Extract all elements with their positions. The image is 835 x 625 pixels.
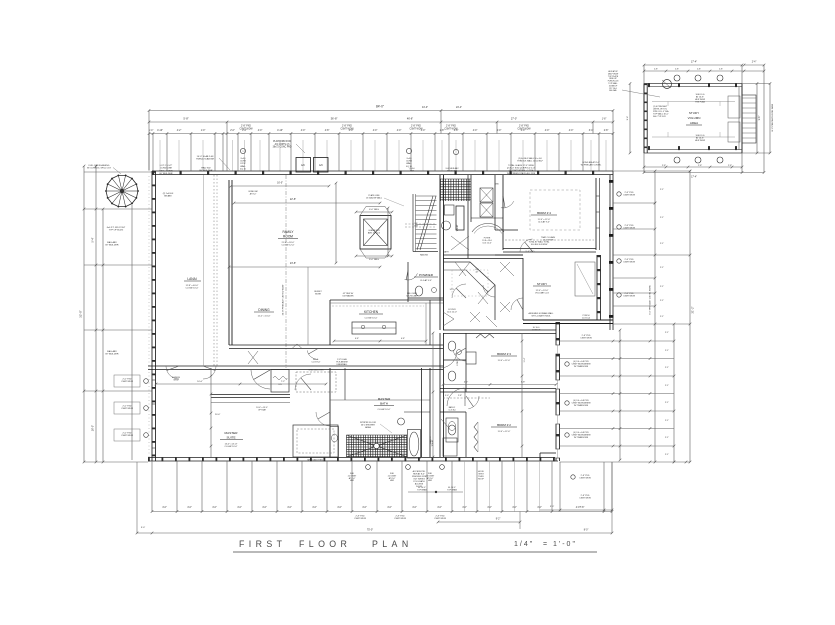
svg-text:HDR: HDR: [390, 480, 395, 482]
tag circle mid: [406, 148, 411, 153]
svg-text:27'-0": 27'-0": [511, 118, 517, 121]
bottom porch mid verticals: [464, 461, 466, 512]
precast lintel dashdot line: [285, 175, 287, 368]
svg-text:CSMT WDW: CSMT WDW: [579, 498, 591, 500]
svg-text:ROOF: ROOF: [478, 479, 485, 481]
svg-text:2'-8" PXD: 2'-8" PXD: [241, 126, 251, 128]
svg-text:4'-0": 4'-0": [569, 130, 574, 132]
bdrm4 tray dash: [530, 190, 580, 230]
bottom porch columns: [151, 461, 153, 512]
inset interior notes: [653, 94, 706, 142]
bdrm2 closet dash: [443, 397, 490, 399]
bottom dimension line main: [152, 511, 612, 513]
arch niche curve: [472, 224, 504, 233]
svg-text:10'-0": 10'-0": [197, 381, 203, 383]
ms window marks: [152, 379, 156, 381]
svg-text:CLG 12'-0": CLG 12'-0": [482, 242, 492, 244]
washer dryer boxes: [480, 188, 493, 202]
svg-text:36'-8": 36'-8": [331, 117, 338, 121]
svg-text:CLG AT 12'-0": CLG AT 12'-0": [281, 244, 294, 247]
svg-text:2'-8": 2'-8": [719, 69, 723, 71]
svg-text:3'-0": 3'-0": [550, 506, 555, 508]
svg-text:2'-4": 2'-4": [752, 62, 757, 64]
svg-text:2'-1": 2'-1": [660, 217, 664, 219]
svg-text:2'-8": 2'-8": [697, 69, 701, 71]
lanai column dotted line: [213, 175, 215, 366]
left dimension line second: [95, 166, 97, 462]
stair bottom wall: [413, 251, 438, 253]
svg-text:HDR(2) SLAB BM: HDR(2) SLAB BM: [196, 158, 214, 161]
svg-text:1'-4": 1'-4": [149, 130, 154, 132]
svg-text:=: =: [543, 541, 547, 548]
svg-text:TYP OF BLDG: TYP OF BLDG: [109, 230, 124, 232]
inset label: [686, 111, 702, 125]
svg-text:BOND BM AT 8'-0": BOND BM AT 8'-0": [582, 161, 600, 164]
svg-text:UTILITY: UTILITY: [457, 358, 459, 366]
svg-text:POWDER: POWDER: [419, 273, 434, 277]
svg-text:4'-10": 4'-10": [277, 130, 283, 132]
stair rails: [412, 194, 414, 252]
right horizontal extensions upper: [613, 170, 690, 172]
svg-text:CSMT WDW: CSMT WDW: [623, 296, 635, 298]
family dining dim: [229, 266, 380, 268]
right mid dimension line: [673, 324, 675, 462]
svg-text:W/D: W/D: [495, 184, 499, 186]
svg-text:BY BUILDER: BY BUILDER: [106, 354, 119, 356]
svg-text:BM ABV: BM ABV: [164, 195, 172, 198]
svg-text:4'-0": 4'-0": [187, 507, 192, 509]
svg-text:SHELVING TIES: SHELVING TIES: [309, 370, 325, 372]
study desk: [575, 262, 595, 296]
svg-text:A/C UNITS (2): A/C UNITS (2): [275, 143, 290, 146]
svg-text:16'-0": 16'-0": [92, 425, 95, 431]
svg-text:16 BM DP: 16 BM DP: [532, 329, 541, 331]
svg-text:CSMT WDW: CSMT WDW: [444, 128, 458, 130]
svg-text:CSMT WDW: CSMT WDW: [579, 478, 591, 480]
svg-text:5'-8": 5'-8": [521, 382, 526, 384]
svg-text:44'-0": 44'-0": [422, 106, 428, 109]
svg-text:2'-1": 2'-1": [665, 437, 669, 439]
window jamb lines top band: [159, 140, 161, 171]
svg-text:1'-8": 1'-8": [602, 119, 607, 121]
top exterior wall: [152, 170, 613, 172]
svg-text:FLOOR: FLOOR: [299, 539, 351, 549]
svg-text:14'-8" PRECAST LINTEL WDW: 14'-8" PRECAST LINTEL WDW: [771, 104, 774, 132]
svg-text:BATH: BATH: [444, 251, 450, 254]
hall corridor door marks: [248, 351, 258, 364]
svg-text:W/ R-11 BATT INSUL: W/ R-11 BATT INSUL: [531, 315, 551, 318]
svg-text:2'-1": 2'-1": [665, 332, 669, 334]
svg-text:11'-0" x 12'-0": 11'-0" x 12'-0": [498, 360, 511, 362]
svg-text:ICE MAKER: ICE MAKER: [342, 295, 354, 298]
svg-text:W/ TRANSOMS: W/ TRANSOMS: [574, 404, 589, 407]
svg-text:4'-0": 4'-0": [373, 130, 378, 132]
svg-text:2'-1": 2'-1": [665, 454, 669, 456]
svg-text:8'-0": 8'-0": [584, 530, 589, 532]
svg-text:W/ TRANSOMS: W/ TRANSOMS: [574, 436, 589, 439]
kitchen counters: [330, 299, 443, 301]
bifold closet top: [476, 334, 494, 338]
svg-text:6x6 P.T. WD POST: 6x6 P.T. WD POST: [107, 227, 126, 229]
bath column walls: [465, 333, 467, 392]
svg-text:2'-1": 2'-1": [660, 189, 664, 191]
powder room walls: [407, 262, 409, 302]
svg-text:4'-0": 4'-0": [537, 507, 542, 509]
left dimension line third: [102, 209, 104, 462]
upper toilet fixtures: [445, 205, 455, 215]
svg-text:4'-2": 4'-2": [177, 130, 182, 132]
svg-text:STUDY: STUDY: [537, 282, 547, 286]
svg-text:NICHE: NICHE: [315, 293, 322, 295]
tag circle curb: [240, 148, 245, 153]
overall width dimension line: [149, 110, 613, 112]
svg-text:3'-0": 3'-0": [141, 527, 146, 529]
svg-text:6'-0" BRG: 6'-0" BRG: [369, 259, 379, 261]
master vanity: [330, 427, 339, 458]
svg-text:SHL TYP FLR: SHL TYP FLR: [653, 116, 666, 118]
svg-text:BDRM # 2: BDRM # 2: [497, 423, 511, 427]
svg-text:CSMT WDW: CSMT WDW: [623, 262, 635, 264]
svg-text:4'-0": 4'-0": [512, 507, 517, 509]
bdrm4 closet dash: [505, 239, 594, 241]
svg-text:2'-1": 2'-1": [660, 286, 664, 288]
foyer dashed clg: [452, 270, 488, 296]
svg-text:WDW: WDW: [174, 379, 179, 381]
svg-text:CLG 12'-0": CLG 12'-0": [447, 312, 457, 314]
kitchen island: [352, 322, 396, 334]
svg-text:CLG AT 10'-0": CLG AT 10'-0": [364, 317, 377, 320]
svg-text:2'-8": 2'-8": [728, 165, 732, 167]
svg-text:SHL BAL: SHL BAL: [609, 89, 617, 92]
svg-text:CSMT WDW: CSMT WDW: [121, 435, 133, 437]
bdrm4 west wall: [502, 175, 504, 250]
svg-text:CSMT WDW: CSMT WDW: [409, 128, 423, 130]
svg-text:SHELVING TIES: SHELVING TIES: [307, 460, 323, 462]
svg-text:BDRM # 4: BDRM # 4: [537, 211, 551, 215]
svg-text:4'-0": 4'-0": [437, 507, 442, 509]
svg-text:RAIL ABV: RAIL ABV: [107, 350, 117, 353]
hall closet walls mid: [443, 329, 556, 331]
svg-text:VOLUMN: VOLUMN: [688, 116, 701, 120]
svg-text:4'-0": 4'-0": [462, 507, 467, 509]
svg-text:5'-0" CLO: 5'-0" CLO: [526, 251, 535, 253]
svg-text:SUITE: SUITE: [226, 436, 235, 440]
stair treads: [416, 195, 437, 197]
svg-text:TOP BEAM: TOP BEAM: [417, 488, 427, 491]
svg-text:4'-8": 4'-8": [325, 130, 330, 132]
svg-text:FIRST: FIRST: [239, 539, 286, 549]
svg-text:1'-0": 1'-0": [553, 541, 577, 548]
svg-text:4'-0": 4'-0": [212, 507, 217, 509]
svg-text:4Q 16: 4Q 16: [240, 168, 247, 170]
inset stair right: [742, 95, 756, 143]
right horizontal extensions lower: [560, 340, 675, 342]
svg-text:BATH: BATH: [380, 402, 388, 406]
svg-text:23'-8": 23'-8": [290, 262, 296, 265]
svg-text:A/C: A/C: [319, 164, 323, 167]
svg-text:CSMT WDW: CSMT WDW: [394, 518, 406, 520]
svg-text:CLG AT 9'-0": CLG AT 9'-0": [420, 279, 432, 282]
inset right interior boxes: [728, 96, 740, 118]
family room top dim: [231, 185, 329, 187]
upper hall diagonals: [451, 236, 469, 250]
svg-text:AREA: AREA: [365, 426, 371, 429]
family room vertical dim: [335, 183, 337, 263]
svg-text:5'-8": 5'-8": [183, 117, 188, 121]
svg-text:KITCHEN: KITCHEN: [364, 310, 379, 314]
svg-text:1/4": 1/4": [514, 541, 534, 548]
svg-text:36x72 CONC PAD: 36x72 CONC PAD: [273, 146, 292, 149]
svg-text:2'-8" PXD: 2'-8" PXD: [446, 126, 456, 128]
svg-text:42": 42": [476, 272, 479, 274]
svg-text:CLG 8-0: CLG 8-0: [448, 409, 455, 411]
bdrm4 door swing: [520, 239, 533, 252]
bdrm3 door: [453, 350, 466, 361]
svg-text:HDR: HDR: [410, 170, 415, 172]
bdrm4 east wall: [595, 178, 597, 250]
study east wall: [596, 255, 598, 320]
left exterior wall: [151, 171, 153, 461]
bdrm interior dim chain: [521, 333, 523, 457]
svg-text:CLG AT 10'-0": CLG AT 10'-0": [377, 408, 390, 411]
glass floor dims: [356, 211, 392, 213]
interior dim kitchen: [334, 340, 426, 342]
toilet pocket door: [456, 206, 464, 230]
A/C unit pads: [296, 158, 311, 173]
right long dimension line A: [654, 171, 656, 462]
svg-text:CSMT WDW: CSMT WDW: [623, 228, 635, 230]
bath basin: [398, 418, 405, 425]
hall spine wall: [439, 175, 441, 330]
svg-text:9'-2": 9'-2": [496, 519, 501, 521]
svg-text:CSMT WDW: CSMT WDW: [354, 518, 366, 520]
inset corner bubble: [663, 80, 672, 89]
svg-text:BATH 3: BATH 3: [429, 436, 432, 444]
foyer extra diagonals: [500, 262, 514, 276]
svg-text:CSMT WDW: CSMT WDW: [623, 195, 635, 197]
svg-text:W/ PRECAST LINTEL: W/ PRECAST LINTEL: [581, 164, 602, 167]
svg-text:VOLUME CLG: VOLUME CLG: [535, 293, 549, 295]
skylight hatch grid: [441, 179, 471, 201]
bedroom wing east wall: [555, 322, 557, 461]
svg-text:ROOM: ROOM: [283, 235, 293, 239]
family room dim 22-8: [234, 202, 380, 204]
laundry walls: [470, 175, 472, 222]
svg-text:CLG AT 10'-0": CLG AT 10'-0": [224, 445, 237, 448]
master closet front lines: [211, 394, 290, 396]
inset right dims: [742, 82, 774, 154]
second dimension row: [149, 121, 613, 123]
svg-text:6'-8": 6'-8": [401, 338, 405, 340]
bottom tag circles: [366, 465, 371, 470]
family room west wall: [228, 180, 230, 345]
svg-text:5'-4": 5'-4": [92, 237, 95, 242]
svg-text:16R: 16R: [414, 226, 418, 228]
svg-text:36'-8" PRECAST LINTEL WDW: 36'-8" PRECAST LINTEL WDW: [282, 284, 285, 316]
svg-text:2'-8": 2'-8": [604, 130, 609, 132]
svg-text:AT 8'-0": AT 8'-0": [250, 192, 257, 195]
svg-text:11'-0" x 12'-0": 11'-0" x 12'-0": [498, 431, 511, 433]
svg-text:4'-0": 4'-0": [301, 130, 306, 132]
dining-kitchen wall: [229, 344, 443, 346]
svg-text:20'-0": 20'-0": [215, 414, 221, 416]
svg-text:2'-8": 2'-8": [654, 69, 658, 71]
bottom second dim: [438, 521, 520, 523]
svg-text:9'-4": 9'-4": [759, 116, 761, 121]
svg-text:CSMT WDW: CSMT WDW: [239, 128, 253, 130]
spine wall lower: [439, 333, 441, 457]
svg-text:TOTAL GLASS 37'-0" WIDE: TOTAL GLASS 37'-0" WIDE: [508, 164, 534, 167]
svg-text:2'-1": 2'-1": [665, 420, 669, 422]
svg-text:TRIM BLK WALL 10 6-8 BI-F: TRIM BLK WALL 10 6-8 BI-F: [517, 160, 543, 163]
svg-text:MASTER: MASTER: [378, 397, 391, 401]
master tub: [408, 430, 421, 459]
svg-text:PLATFORM FOR: PLATFORM FOR: [273, 140, 291, 143]
bottom overall dim: [137, 532, 612, 534]
bdrm3-2 dividing wall: [440, 388, 556, 390]
svg-text:2'-8": 2'-8": [698, 165, 702, 167]
svg-text:GLASS FLR: GLASS FLR: [368, 229, 380, 232]
svg-text:W/ CORRUG. SPILL OUT: W/ CORRUG. SPILL OUT: [87, 168, 112, 170]
svg-text:2'-8": 2'-8": [662, 165, 666, 167]
bdrm4 south wall: [503, 248, 596, 250]
svg-text:4'-0": 4'-0": [258, 130, 263, 132]
svg-text:4'-0": 4'-0": [497, 130, 502, 132]
upper bath walls: [467, 175, 469, 258]
powder fixtures: [415, 286, 423, 296]
svg-text:2'-1": 2'-1": [660, 243, 664, 245]
svg-text:2'-8" PXD: 2'-8" PXD: [411, 126, 421, 128]
svg-text:CLG 8'-0": CLG 8'-0": [312, 362, 321, 364]
bottom el note: [408, 491, 463, 493]
svg-text:2'-8": 2'-8": [458, 395, 462, 397]
spiral stair: [122, 190, 138, 192]
svg-text:9'-4": 9'-4": [627, 116, 629, 121]
inset bottom dims: [643, 95, 766, 179]
svg-text:4'-0": 4'-0": [397, 130, 402, 132]
svg-text:2'-1": 2'-1": [665, 385, 669, 387]
svg-text:DINING: DINING: [258, 308, 270, 312]
svg-text:2'-1": 2'-1": [665, 350, 669, 352]
svg-text:5'-0": 5'-0": [445, 395, 449, 397]
master bath inner walls: [344, 368, 346, 400]
svg-text:OPT BAY: OPT BAY: [258, 408, 267, 411]
third dimension row with bay dims: [149, 133, 613, 135]
kitchen upper dash: [332, 305, 424, 307]
bdrm4 window marks: [596, 195, 600, 197]
powder door: [405, 273, 418, 280]
extension lines from dimension band to top wall: [148, 134, 150, 171]
svg-text:4'-0": 4'-0": [262, 507, 267, 509]
svg-text:7'-2": 7'-2": [281, 381, 286, 383]
bdrm2 door: [468, 396, 479, 409]
svg-text:ABV 16' CLG: ABV 16' CLG: [368, 232, 381, 235]
svg-text:4'-0": 4'-0": [473, 130, 478, 132]
svg-text:10'-0" SLAB 2-48: 10'-0" SLAB 2-48: [197, 155, 215, 158]
glass floor feature: [360, 216, 391, 250]
kitchen west wall: [329, 300, 331, 345]
inset left dim: [629, 84, 631, 154]
left dimension line 32'-0: [83, 166, 85, 462]
svg-text:84'-0": 84'-0": [376, 105, 384, 109]
svg-text:CSMT WDW: CSMT WDW: [340, 128, 354, 130]
bdrm4 door arc: [501, 201, 514, 208]
svg-text:2'-0": 2'-0": [230, 130, 235, 132]
svg-text:FAMILY: FAMILY: [282, 230, 294, 234]
svg-text:32'-0": 32'-0": [79, 310, 83, 318]
svg-text:4'-0": 4'-0": [487, 507, 492, 509]
svg-text:AREA: AREA: [690, 121, 698, 125]
svg-text:4'-0": 4'-0": [387, 507, 392, 509]
svg-text:4'-0": 4'-0": [162, 507, 167, 509]
interior dim hall: [443, 384, 556, 386]
svg-text:16 GAUGE WALL: 16 GAUGE WALL: [366, 197, 383, 200]
svg-text:4'-10": 4'-10": [157, 130, 163, 132]
svg-text:LANAI: LANAI: [187, 277, 196, 281]
svg-text:RAIL W/2: RAIL W/2: [201, 167, 211, 170]
svg-text:4'-0": 4'-0": [237, 507, 242, 509]
window tag 2: [114, 402, 140, 414]
svg-text:2'-1": 2'-1": [665, 402, 669, 404]
svg-text:CLG AT 9'-0": CLG AT 9'-0": [538, 221, 550, 224]
entry door swings: [452, 284, 466, 298]
svg-text:CSMT WDW: CSMT WDW: [121, 381, 133, 383]
svg-text:2'-8": 2'-8": [675, 69, 679, 71]
bottom porch columns right: [559, 462, 561, 512]
wic box: [293, 425, 338, 457]
svg-text:17'-4": 17'-4": [691, 61, 697, 64]
svg-text:4'-0": 4'-0": [337, 507, 342, 509]
right wing mid dim chain: [619, 330, 621, 460]
note dining buffet: [307, 267, 309, 345]
window tag 1: [114, 375, 140, 387]
bath3 vanity: [446, 418, 458, 442]
left porch deck edge: [131, 205, 133, 460]
svg-text:46'-8": 46'-8": [407, 118, 413, 121]
svg-text:4'-0": 4'-0": [545, 130, 550, 132]
east porch edge wall: [609, 175, 611, 330]
pool bath wall: [421, 368, 423, 457]
svg-text:2'-1": 2'-1": [660, 316, 664, 318]
svg-text:22'-8": 22'-8": [290, 198, 296, 201]
SE corner jog: [540, 452, 556, 454]
bifold closet bdrm2: [474, 422, 478, 452]
svg-text:RAIL ABV: RAIL ABV: [107, 241, 117, 244]
svg-text:12'-2" x 13'-0": 12'-2" x 13'-0": [258, 316, 271, 318]
inset study volume area outline: [644, 83, 742, 153]
svg-text:1'-0": 1'-0": [201, 130, 206, 132]
svg-text:WALL: WALL: [240, 165, 246, 168]
lin closet: [271, 370, 289, 393]
lanai sgd line: [203, 175, 205, 366]
svg-text:LOT 2 1-1/2": LOT 2 1-1/2": [160, 165, 173, 167]
svg-text:10-0 BI-F 6-8 WDW: 10-0 BI-F 6-8 WDW: [531, 244, 548, 246]
svg-text:HDR: HDR: [350, 480, 355, 482]
bottom right dim: [540, 509, 612, 511]
svg-text:STUDY: STUDY: [689, 111, 699, 115]
svg-text:BY BUILDER: BY BUILDER: [106, 245, 119, 247]
bottom exterior wall: [148, 457, 558, 459]
master suite vertical dim: [210, 368, 212, 457]
left horizontal extension lines: [84, 171, 152, 173]
svg-text:TOILET: TOILET: [457, 224, 459, 232]
svg-text:4'-0": 4'-0": [312, 507, 317, 509]
svg-text:KNEEWALL: KNEEWALL: [337, 363, 349, 366]
svg-text:CSMT WDW: CSMT WDW: [580, 338, 592, 340]
svg-text:CSMT WDW: CSMT WDW: [121, 408, 133, 410]
svg-text:HDR: HDR: [428, 480, 433, 482]
hall dim vertical: [432, 333, 434, 457]
